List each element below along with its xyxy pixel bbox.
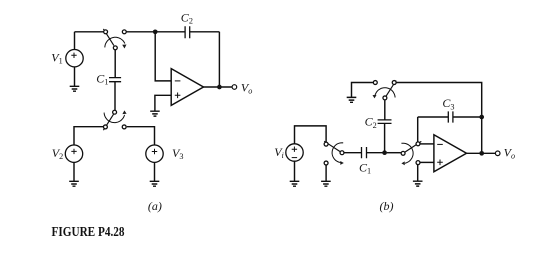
- svg-text:V1: V1: [51, 50, 62, 65]
- switch S5 (SPDT, top reset): [373, 81, 397, 100]
- label (b): [380, 199, 394, 213]
- wire C2 to feedback corner: [190, 31, 220, 33]
- wire S5 left contact to ground: [352, 83, 374, 98]
- svg-text:C1: C1: [96, 71, 108, 86]
- wire S1 right contact to node A: [127, 31, 154, 33]
- wire S1 pole to capacitor C1: [114, 50, 116, 78]
- wire S2 left contact to V2: [74, 127, 103, 145]
- capacitor C1 (circuit b): [362, 147, 367, 158]
- output terminal Vo (b): [495, 151, 500, 156]
- svg-text:V2: V2: [52, 146, 63, 161]
- label V2: [52, 146, 63, 161]
- wire node C up to capacitor C2 (b): [384, 123, 386, 152]
- ground (below V1): [70, 67, 80, 91]
- voltage source V2: [65, 145, 82, 162]
- ground (S3 lower contact): [321, 165, 331, 187]
- svg-text:V3: V3: [172, 146, 183, 161]
- capacitor C2: [185, 26, 190, 38]
- output terminal Vo (a): [232, 85, 237, 90]
- switch S2 (SPDT, bottom): [103, 110, 126, 130]
- ground (S4 bottom contact): [413, 165, 423, 187]
- switch S1 (SPDT, top): [103, 29, 126, 50]
- ground (below V2): [69, 162, 79, 186]
- wire node A to capacitor C2: [155, 31, 185, 33]
- node D (feedback junction): [479, 115, 484, 120]
- voltage source V3: [146, 145, 163, 162]
- node B (output junction): [217, 85, 222, 90]
- switch S3 (SPDT, input): [324, 141, 344, 165]
- switch S4 (SPDT, to op-amp): [401, 141, 421, 165]
- node A (summing junction): [153, 29, 158, 34]
- label C2: [181, 10, 193, 25]
- node C (junction of C1, C2, S4): [382, 150, 387, 155]
- wire feedback rail to capacitor C3: [418, 116, 449, 118]
- svg-text:FIGURE P4.28: FIGURE P4.28: [52, 225, 125, 240]
- svg-text:Vo: Vo: [241, 80, 252, 95]
- voltage source Vi: [286, 144, 303, 161]
- label V3: [172, 146, 183, 161]
- ground (below V3): [150, 163, 160, 187]
- label C1 (circuit b): [359, 161, 371, 176]
- svg-text:C1: C1: [359, 161, 371, 176]
- label V1: [51, 50, 62, 65]
- label Vo (b): [504, 146, 515, 161]
- caption FIGURE P4.28: [52, 225, 125, 240]
- wire U2 output: [467, 152, 496, 154]
- op-amp U2: [434, 135, 467, 172]
- wire S4 top contact to U2 inverting input: [420, 143, 434, 145]
- capacitor C1 (circuit a): [109, 78, 121, 82]
- wire C1 to switch S2 pole: [114, 82, 116, 111]
- op-amp U1: [171, 69, 203, 106]
- wire C2 up to switch S5 pole: [384, 100, 386, 120]
- label C2 (circuit b): [365, 115, 377, 130]
- wire V1 to top rail: [74, 32, 76, 50]
- label C3: [442, 96, 454, 111]
- capacitor C2 (circuit b): [378, 120, 392, 124]
- svg-text:Vi: Vi: [274, 145, 284, 160]
- svg-text:C2: C2: [365, 115, 377, 130]
- wire Vi up and over to switch S3: [295, 126, 327, 144]
- svg-text:C3: C3: [442, 96, 454, 111]
- svg-text:(b): (b): [380, 199, 394, 213]
- wire S4 top contact up to feedback rail: [417, 117, 419, 142]
- wire C3 to node D: [453, 116, 482, 118]
- label C1 (circuit a): [96, 71, 108, 86]
- node E (output junction): [479, 151, 484, 156]
- wire C1 to node C: [367, 152, 385, 154]
- ground (U1 + input): [150, 111, 160, 116]
- label Vo (a): [241, 80, 252, 95]
- wire S4 bottom contact to U2 + input: [420, 161, 434, 163]
- wire U1 noninverting input to ground: [155, 95, 171, 111]
- label Vi: [274, 145, 284, 160]
- svg-text:(a): (a): [148, 199, 162, 213]
- wire feedback down to output node: [218, 32, 220, 87]
- wire node C to switch S4 pole: [387, 152, 401, 154]
- wire S2 right contact to V3: [127, 127, 155, 145]
- ground (below Vi): [290, 161, 300, 186]
- wire S3 pole to capacitor C1 (b): [344, 152, 361, 154]
- svg-text:Vo: Vo: [504, 146, 515, 161]
- wire U1 output: [204, 86, 232, 88]
- svg-text:C2: C2: [181, 10, 193, 25]
- label (a): [148, 199, 162, 213]
- capacitor C3: [448, 111, 453, 122]
- wire top rail to switch S1: [75, 31, 104, 33]
- voltage source V1: [66, 50, 83, 67]
- wire node A down to inverting input: [155, 32, 171, 81]
- ground (S5 left contact): [347, 97, 357, 102]
- wire node D down to output node: [481, 117, 483, 153]
- wire S5 right contact to output column: [397, 83, 482, 115]
